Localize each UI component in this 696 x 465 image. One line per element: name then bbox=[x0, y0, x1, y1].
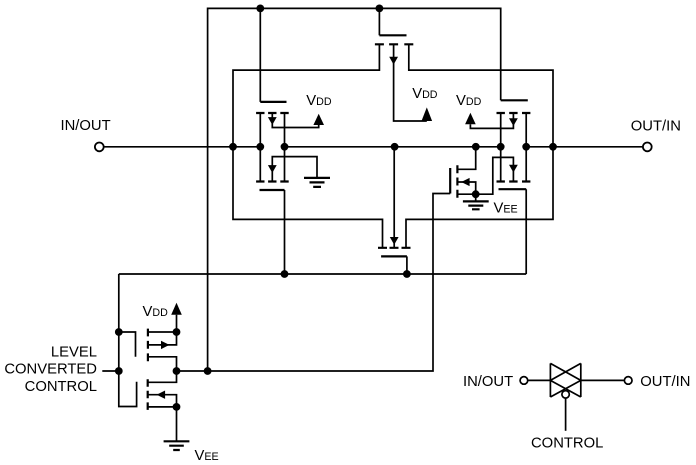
svg-text:OUT/IN: OUT/IN bbox=[640, 374, 690, 390]
svg-text:OUT/IN: OUT/IN bbox=[631, 118, 681, 134]
svg-text:VDD: VDD bbox=[306, 93, 332, 109]
svg-text:VEE: VEE bbox=[195, 448, 219, 464]
svg-text:CONTROL: CONTROL bbox=[25, 379, 97, 395]
svg-text:VDD: VDD bbox=[456, 93, 482, 109]
svg-text:IN/OUT: IN/OUT bbox=[61, 118, 111, 134]
svg-text:CONVERTED: CONVERTED bbox=[4, 362, 97, 378]
svg-text:VDD: VDD bbox=[143, 304, 169, 320]
svg-text:VDD: VDD bbox=[412, 86, 438, 102]
svg-text:VEE: VEE bbox=[494, 200, 518, 216]
svg-text:CONTROL: CONTROL bbox=[531, 436, 603, 452]
svg-text:IN/OUT: IN/OUT bbox=[463, 374, 513, 390]
svg-text:LEVEL: LEVEL bbox=[51, 345, 97, 361]
